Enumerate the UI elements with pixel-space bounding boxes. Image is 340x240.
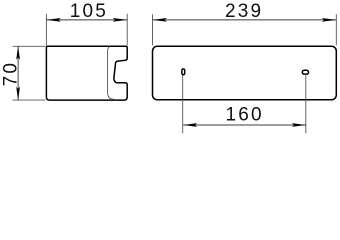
- svg-text:105: 105: [70, 1, 108, 22]
- dim 70 line: [17, 46, 19, 100]
- dim 239 arrow right: [322, 18, 337, 22]
- dim 70 arrow top: [16, 46, 20, 60]
- front view outline: [153, 46, 337, 100]
- svg-text:160: 160: [225, 105, 263, 126]
- dim 160 extension line left: [182, 75, 184, 133]
- dim 160 arrow left: [183, 123, 197, 127]
- front view right hole (horizontal slot): [302, 70, 308, 74]
- dim 70 arrow bottom: [16, 87, 20, 101]
- front view left hole (vertical slot): [182, 69, 185, 75]
- dim 70 extension line bottom: [13, 99, 46, 101]
- dim 105 extension line left: [45, 14, 47, 46]
- dim 105 line: [46, 19, 127, 21]
- dim 160 line: [183, 124, 306, 126]
- dim 239 extension line right: [335, 14, 337, 45]
- svg-text:70: 70: [0, 61, 21, 87]
- svg-text:239: 239: [225, 1, 263, 22]
- dim 70 extension line top: [13, 45, 46, 47]
- dim 105 extension line right: [126, 14, 128, 46]
- side view inner edge line: [108, 47, 115, 100]
- dim 239 extension line left: [152, 14, 154, 45]
- dim 239 arrow left: [153, 18, 168, 22]
- dim 105 arrow right: [113, 18, 128, 22]
- dim 160 extension line right: [305, 75, 307, 133]
- dim 160 arrow right: [292, 123, 306, 127]
- dim 105 arrow left: [46, 18, 61, 22]
- side view outline: [46, 46, 127, 100]
- dim 239 line: [153, 19, 337, 21]
